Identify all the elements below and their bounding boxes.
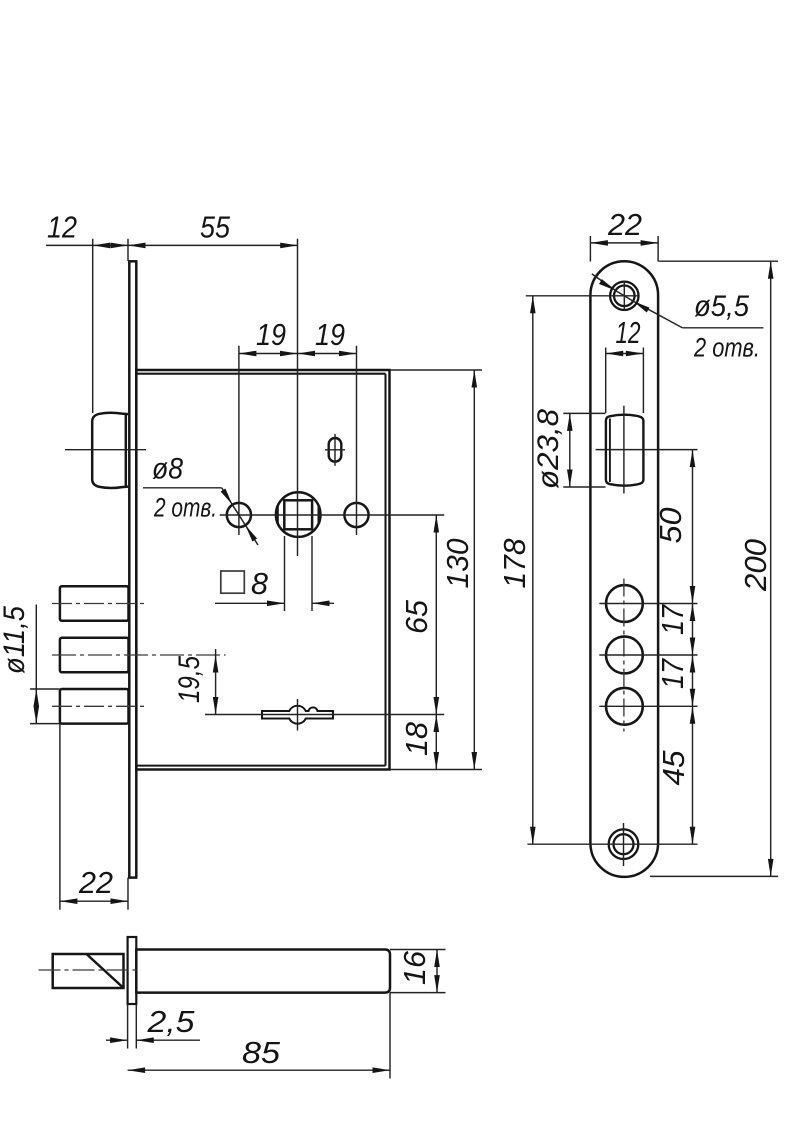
svg-text:130: 130 bbox=[440, 539, 475, 589]
keyhole vertical center mark bbox=[297, 699, 299, 731]
svg-text:ø11,5: ø11,5 bbox=[0, 606, 31, 674]
deadbolt centerline 3 bbox=[52, 705, 146, 707]
leader o5,5 2 holes bbox=[592, 274, 764, 328]
bolt hole 2 bbox=[606, 637, 643, 674]
bottom screw hole o5,5 bbox=[609, 829, 639, 859]
spindle hub circle bbox=[276, 492, 321, 537]
dimension 130 arrows bbox=[472, 370, 478, 388]
svg-text:22: 22 bbox=[78, 865, 113, 900]
svg-text:ø8: ø8 bbox=[152, 453, 183, 486]
dimension chain 50 17 17 45 line bbox=[692, 450, 694, 845]
svg-text:65: 65 bbox=[399, 599, 434, 634]
svg-text:16: 16 bbox=[397, 950, 432, 985]
lever keyhole slot bbox=[262, 706, 333, 724]
dimension 2,5 arrows bbox=[110, 1037, 128, 1043]
deadbolt centerline 2 extended for dim 19,5 bbox=[52, 654, 226, 656]
deadbolt cylinder 3 bbox=[60, 689, 129, 724]
small oval slot bbox=[329, 438, 342, 462]
extension lines bottom view bbox=[128, 950, 446, 1079]
dimension 50 arrows bbox=[690, 450, 696, 468]
dimension 8 arrows bbox=[267, 601, 285, 607]
dimension 18 arrows bbox=[434, 715, 440, 733]
lock body case outline bbox=[136, 370, 389, 770]
dimension 16 arrows bbox=[434, 950, 440, 968]
svg-text:19: 19 bbox=[256, 317, 286, 352]
dimension 65 and 18 line bbox=[435, 515, 437, 770]
dimension 200 line bbox=[770, 261, 772, 876]
faceplate front strip bbox=[128, 261, 137, 877]
svg-text:2 отв.: 2 отв. bbox=[153, 493, 217, 523]
svg-text:8: 8 bbox=[251, 566, 269, 601]
svg-text:12: 12 bbox=[47, 210, 77, 245]
svg-text:178: 178 bbox=[497, 538, 532, 589]
deadbolt centerline 1 bbox=[52, 603, 146, 605]
latch bolt head (front view) bbox=[92, 413, 128, 488]
bolt hole 3 bbox=[606, 688, 643, 725]
dimension 19 19 line bbox=[239, 353, 357, 355]
dimension 12 (backset offset) line bbox=[46, 244, 298, 246]
bolt holes vertical centerline bbox=[623, 579, 625, 732]
dimension o11,5 arrows bbox=[34, 689, 40, 707]
svg-text:12: 12 bbox=[616, 315, 641, 350]
latch tip bbox=[53, 954, 124, 988]
svg-text:19: 19 bbox=[315, 317, 345, 352]
oval slot center marks bbox=[325, 434, 345, 466]
dimension 8 (square) lines bbox=[215, 602, 334, 604]
keyhole centerline extended bbox=[205, 714, 444, 716]
deadbolt cylinder 2 bbox=[60, 638, 129, 673]
svg-text:18: 18 bbox=[399, 721, 434, 756]
dimension 22 arrows bbox=[60, 898, 78, 904]
dimension 19,5 line bbox=[215, 649, 217, 715]
dimension 22 (bolt throw) line bbox=[60, 900, 128, 902]
svg-text:50: 50 bbox=[653, 508, 688, 544]
lock body inner fold lines bbox=[136, 374, 385, 766]
svg-text:2,5: 2,5 bbox=[146, 1004, 195, 1039]
dimension 65 arrows bbox=[434, 515, 440, 533]
top screw hole center marks bbox=[526, 281, 640, 311]
dimension 178 arrows bbox=[530, 296, 536, 314]
bolt hole centerlines bbox=[599, 604, 697, 707]
svg-text:45: 45 bbox=[656, 750, 691, 786]
extension lines left view bbox=[30, 239, 482, 910]
svg-text:55: 55 bbox=[200, 210, 231, 245]
dimension 19 arrows bbox=[239, 351, 257, 357]
deadbolt cylinder 1 bbox=[60, 586, 129, 621]
dimension 12 arrows bbox=[93, 243, 111, 249]
latch bar body bbox=[136, 950, 390, 993]
spindle hub side flats bbox=[277, 506, 319, 524]
dimension 178 line bbox=[532, 296, 534, 844]
svg-text:19,5: 19,5 bbox=[173, 656, 206, 703]
svg-text:17: 17 bbox=[655, 603, 690, 635]
dimension 19,5 arrows bbox=[213, 655, 219, 673]
dimension 85 arrows bbox=[128, 1067, 146, 1073]
spindle horizontal centerline bbox=[220, 514, 445, 516]
dimension o23,8 line bbox=[569, 413, 571, 487]
svg-text:22: 22 bbox=[607, 207, 642, 242]
faceplate cross-section bbox=[128, 937, 137, 1004]
fixing hole right o8 bbox=[344, 503, 368, 527]
dimension 130 line bbox=[473, 370, 475, 770]
bolt hole 1 bbox=[606, 585, 643, 622]
svg-text:85: 85 bbox=[242, 1035, 281, 1070]
dimension 22 (plate width) line bbox=[590, 242, 658, 244]
latch window centerlines bbox=[596, 406, 698, 494]
latch window bbox=[606, 415, 644, 486]
svg-text:ø23,8: ø23,8 bbox=[532, 409, 565, 489]
dimension 17 upper arrows bbox=[690, 604, 696, 622]
latch tip centerline bbox=[39, 969, 141, 971]
svg-text:200: 200 bbox=[738, 539, 773, 592]
svg-text:2 отв.: 2 отв. bbox=[693, 333, 760, 363]
dimension 12 (window) line bbox=[606, 353, 644, 355]
latch centerline bbox=[65, 449, 146, 451]
dimension 200 arrows bbox=[768, 261, 774, 279]
extension lines right view bbox=[563, 236, 778, 876]
dimension 2,5 lines bbox=[106, 1039, 200, 1041]
svg-text:17: 17 bbox=[655, 657, 690, 689]
dimension 85 line bbox=[128, 1069, 390, 1071]
top screw hole o5,5 bbox=[610, 282, 638, 310]
leader o8 2 holes bbox=[143, 488, 258, 545]
dimension 12 window arrows bbox=[606, 351, 624, 357]
dimension 17 lower arrows bbox=[690, 655, 696, 673]
latch window inner edge bbox=[609, 419, 611, 483]
dimension 45 arrows bbox=[690, 706, 696, 724]
dimension o23,8 arrows bbox=[567, 413, 573, 431]
bottom screw hole center marks bbox=[527, 823, 697, 866]
square spindle hole 8x8 bbox=[284, 500, 312, 529]
fixing hole left o8 bbox=[227, 503, 251, 527]
square symbol for 8 bbox=[221, 571, 245, 593]
dimension o11,5 line bbox=[35, 605, 37, 724]
face plate outline bbox=[590, 261, 658, 877]
dimension 22 plate arrows bbox=[590, 240, 608, 246]
svg-text:ø5,5: ø5,5 bbox=[694, 290, 749, 323]
dimension 16 line bbox=[436, 950, 438, 993]
dimension 55 arrows bbox=[128, 243, 146, 249]
